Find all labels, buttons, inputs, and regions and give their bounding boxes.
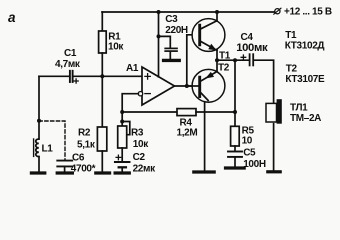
node feedback (233, 58, 237, 62)
node emitters (215, 58, 219, 62)
node input junction (100, 74, 104, 78)
wire to T1 base (187, 35, 199, 86)
capacitor C3 (159, 36, 178, 58)
inductor L1 (34, 139, 39, 172)
svg-text:а: а (8, 10, 16, 25)
speaker TL1 (266, 99, 282, 170)
svg-text:C3: C3 (165, 14, 178, 25)
svg-text:C5: C5 (243, 147, 256, 158)
resistor R5 (231, 126, 240, 150)
svg-text:Т1: Т1 (285, 30, 297, 41)
svg-text:+12 ... 15 В: +12 ... 15 В (284, 7, 332, 18)
svg-text:4,7мк: 4,7мк (55, 59, 81, 70)
ground C2 (115, 171, 129, 174)
ground C6 (57, 171, 72, 174)
wire inverting input net (122, 94, 138, 126)
terminal +12V (274, 8, 281, 14)
resistor R4 (122, 109, 235, 116)
wire left drop to tank (38, 76, 40, 139)
wire jog to R3 side (122, 122, 130, 135)
svg-text:L1: L1 (42, 144, 54, 155)
resistor R1 (99, 12, 107, 76)
ground C3 (164, 59, 180, 62)
transistor T2 (192, 60, 225, 170)
op-amp A1 (138, 67, 174, 105)
node rail/opamp (157, 10, 161, 14)
resistor R2 (97, 76, 106, 171)
ground L1 (31, 171, 44, 174)
capacitor C6 (dashed link) (39, 121, 72, 172)
svg-text:КТ3102Д: КТ3102Д (285, 40, 325, 51)
ground R2 (96, 171, 110, 174)
node L1 top (37, 119, 41, 123)
wire to T2 base (187, 85, 199, 87)
wire op-amp V+ (158, 12, 160, 77)
svg-text:C6: C6 (72, 153, 85, 164)
svg-text:100Н: 100Н (243, 159, 266, 170)
wire top supply rail (102, 11, 275, 13)
ground TL1 (268, 170, 280, 173)
svg-text:C2: C2 (133, 152, 146, 163)
capacitor C2 (115, 155, 130, 172)
svg-text:22мк: 22мк (133, 164, 156, 175)
svg-text:ТМ–2А: ТМ–2А (290, 113, 321, 124)
svg-text:1,2М: 1,2М (177, 127, 198, 138)
svg-text:4700*: 4700* (71, 163, 96, 174)
node C3 branch (157, 34, 161, 38)
capacitor C1 (39, 71, 142, 83)
svg-text:10к: 10к (108, 42, 124, 53)
capacitor C5 (228, 152, 242, 167)
node T1 collector rail (215, 10, 219, 14)
svg-text:КТ3107Е: КТ3107Е (285, 74, 325, 85)
svg-text:5,1к: 5,1к (77, 139, 96, 150)
ground C5 (226, 166, 245, 169)
ground T2 (194, 170, 214, 173)
resistor R3 (118, 126, 127, 161)
svg-text:Т2: Т2 (218, 63, 230, 74)
svg-text:А1: А1 (126, 63, 139, 74)
wire output node (217, 59, 249, 61)
svg-text:ТЛ1: ТЛ1 (290, 103, 308, 114)
transistor T1 (192, 12, 225, 60)
node output junction (185, 84, 189, 88)
svg-text:C1: C1 (64, 48, 77, 59)
wire op-amp output (175, 85, 199, 87)
node C2 jog junction (120, 120, 124, 124)
svg-text:R2: R2 (78, 128, 91, 139)
svg-text:220Н: 220Н (165, 25, 188, 36)
svg-text:10к: 10к (133, 139, 149, 150)
svg-text:10: 10 (242, 135, 253, 146)
node R4 junction (120, 110, 124, 114)
wire feedback vertical (234, 60, 236, 126)
svg-text:100мк: 100мк (236, 42, 268, 54)
node R4 right (233, 110, 237, 114)
svg-text:Т2: Т2 (286, 63, 298, 74)
capacitor C4 (241, 54, 274, 103)
svg-text:R3: R3 (131, 127, 144, 138)
